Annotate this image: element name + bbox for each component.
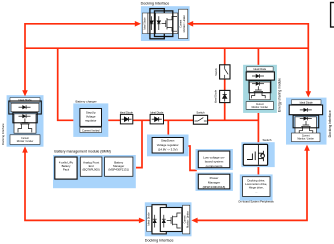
- block: Power Manager (MSP430F2618): [196, 173, 233, 191]
- block: Switch (vertical, column): [214, 65, 230, 79]
- block: Docking Interface (right): [286, 98, 332, 145]
- arrow into left DI top (down): [22, 90, 28, 96]
- wire: switch/ideal-diode column x=224.7: [224, 48, 226, 120]
- wire: energy sharing module down through switch to peripherals: [257, 113, 259, 177]
- block: Docking Interface (bottom): [145, 202, 192, 242]
- svg-text:(MSP430F2131): (MSP430F2131): [108, 167, 129, 171]
- diode D13 (vertical): [223, 91, 227, 101]
- inner box2 frame in ESM: [249, 80, 271, 92]
- label box Ideal Diode in ESM: [247, 67, 274, 71]
- svg-text:StepDown: StepDown: [161, 138, 175, 142]
- Current limited box: [80, 127, 102, 132]
- svg-text:Switch: Switch: [214, 68, 218, 76]
- diode D7 (horizontal): [300, 108, 312, 112]
- svg-text:Docking Interface: Docking Interface: [328, 110, 332, 137]
- svg-text:Ideal Diode: Ideal Diode: [143, 17, 146, 30]
- diode D11: [122, 117, 132, 121]
- inner white box with diode D8 and MOSFET in right DI: [295, 117, 317, 135]
- svg-text:Current: Current: [302, 135, 310, 138]
- switch S1 symbol: [195, 118, 207, 121]
- inner box2 frame in left DI: [13, 112, 37, 123]
- svg-text:(14.8V -> 3.3V): (14.8V -> 3.3V): [158, 147, 178, 151]
- box with diode D3 in left DI: [11, 103, 39, 112]
- block: Docking Interface (top): [141, 1, 190, 41]
- svg-text:Battery charger: Battery charger: [76, 100, 97, 104]
- svg-text:Docking Interface: Docking Interface: [1, 123, 5, 145]
- diode D1 (vertical): [150, 16, 153, 30]
- StepUp voltage regulator box: [80, 109, 102, 127]
- corner box (cut off at top right): [331, 3, 334, 28]
- inner white box with diode D10 and MOSFET in ESM: [249, 82, 270, 100]
- diode D5 (vertical): [153, 215, 157, 228]
- block: Battery management module (BMM): [53, 149, 136, 188]
- Current Monitor / Limiter box (left DI): [10, 135, 40, 145]
- svg-text:Monitor / Limiter: Monitor / Limiter: [183, 15, 186, 32]
- inner box2 frame in top DI: [155, 11, 173, 37]
- arrow into bottom DI right (left): [191, 218, 197, 224]
- diode D8 (horizontal): [300, 117, 312, 121]
- svg-text:...: ...: [255, 190, 258, 194]
- svg-text:Current: Current: [21, 137, 29, 140]
- arrow into left DI bottom (up): [22, 146, 28, 152]
- inner box2 frame in right DI: [293, 115, 319, 128]
- block: Ideal Diode (bus, second): [150, 111, 164, 124]
- svg-text:regulator: regulator: [85, 118, 96, 122]
- battery pack box: [55, 157, 77, 179]
- inner white box with diode D4 and MOSFET in left DI: [14, 114, 36, 133]
- MOSFET Q6 (switch) symbol: [247, 145, 265, 165]
- diode D10 (horizontal): [252, 82, 264, 86]
- svg-text:Monitor / Limiter: Monitor / Limiter: [186, 211, 189, 228]
- svg-text:Docking Interface: Docking Interface: [141, 1, 170, 5]
- block: Energy sharing module: [243, 65, 281, 113]
- battery manager box: [105, 157, 133, 176]
- svg-text:Ideal Diode: Ideal Diode: [147, 212, 151, 226]
- svg-text:Battery management module (BMM: Battery management module (BMM): [54, 149, 110, 153]
- wire: bottom-left run to bottom Docking Interface: [25, 151, 141, 221]
- svg-text:Docking Interface: Docking Interface: [145, 238, 174, 242]
- outer black box in top DI: [150, 9, 164, 39]
- label box Ideal Diode (rotated) in bottom DI: [147, 206, 152, 231]
- Current Monitor / Limiter box (bottom DI): [183, 205, 190, 234]
- wire: stepdown regulator to low-voltage components: [183, 146, 197, 170]
- switch S2 symbol (vertical): [225, 66, 228, 79]
- wire: main power bus y=120.3: [101, 119, 258, 121]
- svg-text:components: components: [206, 164, 223, 168]
- svg-text:Hinge drive,: Hinge drive,: [249, 185, 264, 189]
- diode D4 (horizontal): [19, 114, 31, 118]
- block: Battery charger: [73, 100, 108, 137]
- arrow into top DI right (left): [187, 21, 193, 27]
- diode D6 (vertical): [162, 215, 166, 228]
- box with diode D1 in top DI: [148, 13, 156, 34]
- block: Docking Interface (left): [1, 95, 43, 147]
- svg-text:Switch: Switch: [263, 138, 272, 142]
- svg-text:Monitor / Limiter: Monitor / Limiter: [17, 140, 34, 143]
- label box Ideal Diode (rotated) in top DI: [142, 13, 147, 34]
- svg-text:(BQ76PL900): (BQ76PL900): [83, 167, 100, 171]
- wire: left column from top-left corner to Docking Interface left (net V+ top): [25, 24, 137, 93]
- MOSFET Q3 in bottom DI: [167, 213, 181, 228]
- MOSFET Q4 in right DI: [299, 121, 313, 134]
- arrowheads: [22, 21, 311, 223]
- Current Monitor / Limiter box (top DI): [179, 9, 188, 38]
- wire: energy sharing module feed: [257, 48, 259, 67]
- block: Low voltage on-board system components: [196, 149, 233, 170]
- block: Switch (MOSFET, bottom right): [241, 138, 274, 167]
- inner white box with diode D2 and MOSFET in top DI: [156, 13, 178, 34]
- inner white box with diode D6 and MOSFET in bottom DI: [160, 208, 182, 232]
- arrow into bottom DI left (right): [139, 218, 145, 224]
- svg-text:Monitor / Limiter: Monitor / Limiter: [297, 138, 314, 141]
- diode D2 (vertical): [157, 16, 160, 30]
- svg-text:Current: Current: [256, 103, 264, 106]
- svg-text:Voltage regulator: Voltage regulator: [157, 143, 179, 147]
- diode D3 (horizontal): [19, 105, 31, 109]
- diode D12: [152, 117, 162, 121]
- arrow into right DI bottom (up): [304, 145, 310, 151]
- wire: bus to battery management module: [136, 120, 142, 167]
- wire: bus B horizontal y=48: [25, 47, 308, 49]
- block: On-board System Peripherals: [238, 174, 274, 203]
- svg-text:Current: Current: [183, 215, 186, 223]
- Current Monitor / Limiter box (right DI): [292, 133, 321, 142]
- wire: battery charger feed drop: [58, 48, 81, 120]
- outer black box in left DI: [9, 101, 42, 114]
- arrow into top DI left (right): [135, 21, 141, 27]
- svg-text:(MSP430F2618): (MSP430F2618): [203, 185, 226, 189]
- wire: bus to stepdown regulator: [167, 120, 169, 138]
- svg-text:Energy sharing module: Energy sharing module: [278, 78, 282, 112]
- label box Ideal Diode in right DI: [292, 100, 322, 105]
- block: StepDown voltage regulator: [147, 135, 189, 157]
- box with diode D9 in ESM: [246, 72, 274, 80]
- box with diode D5 in bottom DI: [152, 205, 166, 234]
- svg-text:On-board System Peripherals: On-board System Peripherals: [238, 199, 274, 203]
- Current Monitor / Limiter box (ESM): [246, 102, 273, 110]
- arrow into right DI top (down): [306, 91, 312, 97]
- block: Ideal Diode (bus, first): [120, 111, 134, 124]
- label box Ideal Diode in left DI: [10, 98, 40, 103]
- svg-text:Ideal Diode: Ideal Diode: [18, 98, 32, 102]
- svg-text:Current limited: Current limited: [82, 128, 100, 132]
- svg-text:Pack: Pack: [63, 167, 70, 171]
- wire: bottom-right run to right Docking Interface: [195, 149, 307, 221]
- svg-text:Monitor / Limiter: Monitor / Limiter: [252, 106, 269, 109]
- MOSFET Q2 in left DI: [18, 119, 32, 133]
- svg-text:Switch: Switch: [196, 111, 205, 115]
- svg-text:Ideal Diode: Ideal Diode: [253, 68, 266, 71]
- block: Ideal Diode (vertical, column): [213, 89, 230, 103]
- wire: top-right run to Docking Interface right: [193, 24, 308, 94]
- block: Switch (horizontal on bus): [193, 111, 207, 125]
- MOSFET Q5 in ESM: [252, 86, 266, 98]
- MOSFET Q1 in top DI: [162, 16, 178, 31]
- analog front end box: [80, 157, 102, 176]
- svg-text:Ideal Diode: Ideal Diode: [300, 100, 314, 104]
- box with diode D7 in right DI: [289, 105, 322, 115]
- svg-text:Ideal Diode: Ideal Diode: [213, 89, 217, 103]
- diode D9 (horizontal): [252, 74, 264, 78]
